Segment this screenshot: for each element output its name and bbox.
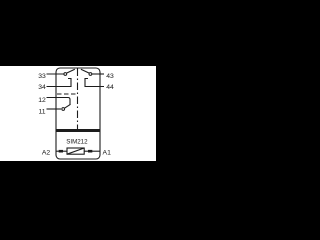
coil box symbol bbox=[67, 148, 84, 154]
divider bar (case/coil separator) bbox=[56, 129, 100, 132]
contact 33 pivot bbox=[64, 73, 67, 76]
wire: coil lead A2 bbox=[56, 150, 67, 152]
wire: lead 34 bbox=[47, 79, 72, 87]
coil lead A2 thick mark bbox=[59, 150, 63, 153]
relay case outline bbox=[56, 68, 100, 159]
svg-text:A1: A1 bbox=[103, 150, 112, 157]
svg-text:12: 12 bbox=[38, 97, 46, 104]
coil lead A1 thick mark bbox=[88, 150, 92, 153]
actuator dash-dot line bbox=[77, 69, 79, 130]
contact 11 pivot bbox=[62, 108, 65, 111]
contact 43-44 blade bbox=[81, 69, 89, 73]
wire: lead 11 bbox=[47, 108, 62, 110]
contact 11-12 blade (closed NC) bbox=[65, 104, 71, 108]
svg-text:SIM212: SIM212 bbox=[66, 139, 88, 146]
white schematic card bbox=[0, 66, 156, 161]
wire: lead 44 bbox=[85, 79, 104, 87]
svg-text:44: 44 bbox=[106, 84, 114, 91]
svg-text:A2: A2 bbox=[42, 150, 51, 157]
svg-text:33: 33 bbox=[38, 73, 46, 80]
mechanical link (dashed) bbox=[57, 93, 78, 95]
wire: coil lead A1 bbox=[84, 150, 99, 152]
coil diagonal bbox=[67, 148, 84, 154]
svg-text:11: 11 bbox=[38, 108, 45, 115]
svg-text:34: 34 bbox=[38, 84, 46, 91]
wire: lead 43 bbox=[92, 73, 104, 75]
contact 43 pivot bbox=[89, 73, 92, 76]
contact 33-34 blade bbox=[67, 69, 75, 73]
wire: lead 33 bbox=[47, 73, 64, 75]
svg-text:43: 43 bbox=[106, 73, 114, 80]
wire: lead 12 with fixed leg bbox=[47, 98, 71, 106]
